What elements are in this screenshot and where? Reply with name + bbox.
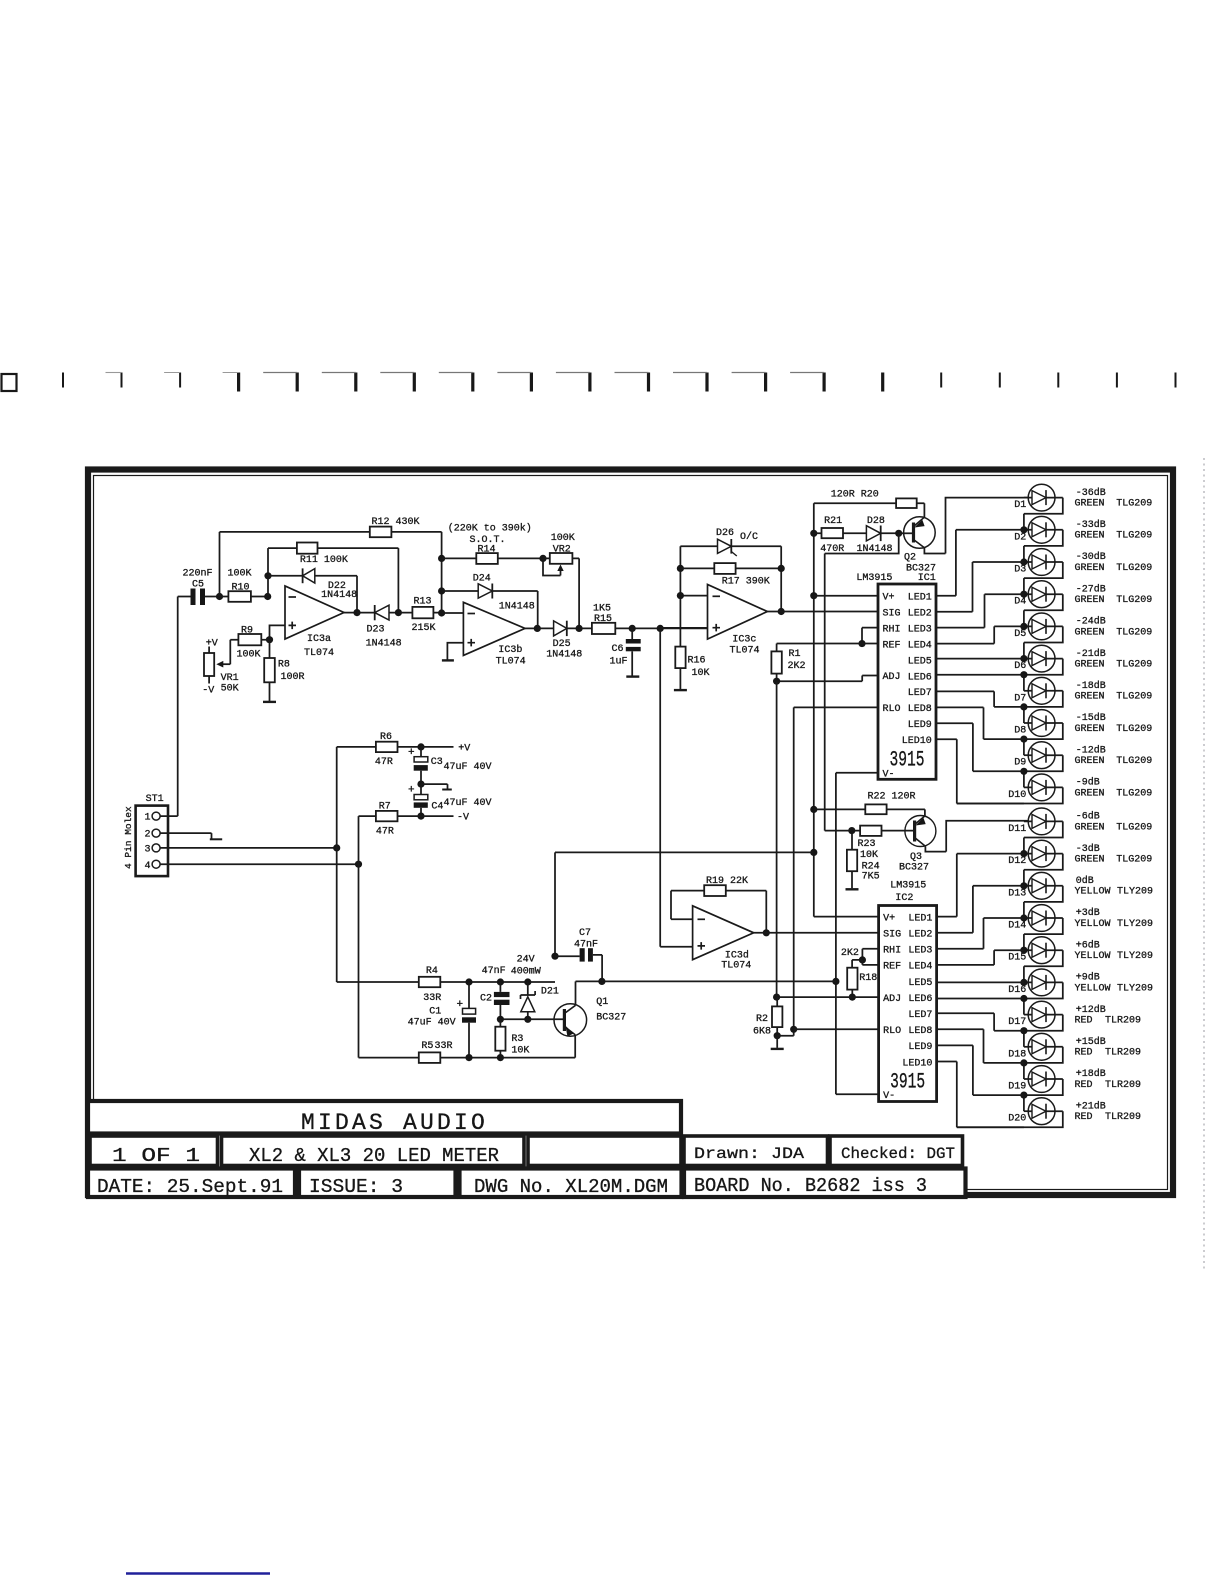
svg-text:215K: 215K: [412, 623, 436, 634]
resistor R8: [269, 640, 271, 702]
svg-text:1: 1: [144, 813, 150, 824]
svg-text:GREEN: GREEN: [1075, 499, 1105, 510]
node R17 right junction: [778, 565, 785, 572]
svg-text:-30dB: -30dB: [1076, 551, 1106, 563]
svg-text:50K: 50K: [221, 684, 239, 695]
svg-text:D18: D18: [1008, 1049, 1026, 1060]
potentiometer VR1: [204, 653, 214, 676]
svg-text:3: 3: [144, 845, 150, 856]
ground: [626, 675, 639, 677]
wire IC2 LED4 to chain: [937, 950, 1024, 965]
svg-text:220nF: 220nF: [183, 569, 213, 580]
wire feedback riser: [219, 532, 221, 597]
svg-text:-21dB: -21dB: [1076, 648, 1106, 660]
svg-text:10K: 10K: [692, 668, 710, 679]
svg-text:C1: C1: [429, 1007, 441, 1018]
svg-text:TLY209: TLY209: [1117, 983, 1153, 994]
svg-text:+9dB: +9dB: [1076, 972, 1100, 984]
svg-text:120R R20: 120R R20: [831, 490, 879, 501]
wire IC1 RLO down to IC2 RLO: [794, 707, 878, 1029]
svg-text:R22 120R: R22 120R: [868, 792, 916, 803]
node D24 left junction: [438, 587, 445, 594]
svg-text:GREEN: GREEN: [1075, 563, 1105, 574]
svg-text:2K2: 2K2: [788, 661, 806, 672]
capacitor C5: [191, 589, 196, 606]
wire IC1 LED10 to chain: [936, 739, 1024, 803]
svg-text:Q3: Q3: [910, 852, 922, 863]
svg-text:GREEN: GREEN: [1075, 660, 1105, 671]
wire IC1 LED2 to chain: [936, 562, 1024, 612]
svg-text:TLR209: TLR209: [1105, 1048, 1141, 1059]
LED D8 -15dB GREEN TLG209: [1014, 710, 1152, 756]
svg-text:VR2: VR2: [553, 544, 571, 555]
svg-text:LED4: LED4: [908, 962, 932, 973]
svg-text:XL2 & XL3 20 LED METER: XL2 & XL3 20 LED METER: [249, 1145, 499, 1167]
svg-text:LED3: LED3: [908, 946, 932, 957]
svg-text:6K8: 6K8: [753, 1027, 771, 1038]
node R23 junction: [848, 827, 855, 834]
resistor R2: [776, 997, 778, 1036]
LED chain anode junctions: [1020, 526, 1027, 533]
pin 3 ST1: [152, 844, 160, 852]
svg-text:LED4: LED4: [908, 640, 932, 651]
wire IC2 LED7 to chain: [937, 1013, 1024, 1030]
node R13 right junction: [438, 609, 445, 616]
svg-text:TL074: TL074: [304, 648, 334, 659]
svg-text:Drawn: JDA: Drawn: JDA: [694, 1145, 804, 1163]
LED D6 -21dB GREEN TLG209: [1014, 645, 1152, 691]
svg-text:LED7: LED7: [908, 688, 932, 699]
node ADJ junction: [773, 678, 780, 685]
svg-text:100K: 100K: [228, 568, 252, 579]
svg-text:LED6: LED6: [908, 672, 932, 683]
node V- rail junction: [832, 978, 839, 985]
node C7 left junction: [551, 953, 558, 960]
svg-text:O/C: O/C: [740, 531, 758, 543]
svg-text:TLG209: TLG209: [1116, 531, 1152, 542]
node IC1 V+ junction: [810, 592, 817, 599]
svg-text:GREEN: GREEN: [1075, 724, 1105, 735]
wire input line and ST1 pin1 riser: [178, 597, 191, 817]
svg-text:LED10: LED10: [902, 736, 932, 747]
node IC3d output: [763, 929, 770, 936]
resistor R16: [679, 546, 681, 689]
wire R11 branch riser: [267, 548, 269, 596]
decorative perforation row: [2, 373, 1176, 392]
svg-text:-24dB: -24dB: [1076, 616, 1106, 628]
svg-text:TLG209: TLG209: [1116, 499, 1152, 510]
svg-text:R5: R5: [421, 1041, 433, 1052]
svg-text:REF: REF: [883, 640, 901, 651]
svg-text:TLG209: TLG209: [1116, 788, 1152, 799]
svg-text:4 Pin Molex: 4 Pin Molex: [123, 806, 134, 869]
svg-text:TL074: TL074: [496, 656, 526, 667]
svg-text:47uF 40V: 47uF 40V: [408, 1018, 456, 1029]
svg-text:LED7: LED7: [908, 1010, 932, 1021]
svg-text:47uF 40V: 47uF 40V: [444, 798, 492, 809]
LED D5 -24dB GREEN TLG209: [1014, 613, 1152, 659]
svg-text:TLG209: TLG209: [1116, 595, 1152, 606]
svg-text:D8: D8: [1014, 726, 1026, 737]
svg-text:33R: 33R: [423, 993, 441, 1004]
svg-text:-9dB: -9dB: [1076, 777, 1100, 789]
wire IC1 LED4 to chain: [936, 626, 1024, 643]
svg-text:IC2: IC2: [895, 893, 913, 904]
diode D28: [881, 532, 899, 534]
svg-text:DWG No. XL20M.DGM: DWG No. XL20M.DGM: [474, 1176, 668, 1198]
svg-text:R11 100K: R11 100K: [300, 555, 348, 566]
LED D15 +6dB YELLOW TLY209: [1008, 937, 1153, 983]
svg-text:Checked: DGT: Checked: DGT: [841, 1145, 955, 1163]
resistor R23: [825, 830, 915, 832]
capacitor C6: [631, 628, 633, 639]
svg-text:TLG209: TLG209: [1116, 756, 1152, 767]
wire +V riser/dropper: [336, 747, 338, 982]
svg-text:LED5: LED5: [908, 978, 932, 989]
svg-text:SIG: SIG: [883, 608, 901, 619]
wire IC3b output: [525, 627, 537, 629]
svg-text:D19: D19: [1008, 1082, 1026, 1093]
svg-text:D4: D4: [1014, 597, 1026, 608]
resistor R12: [370, 527, 392, 538]
svg-text:-18dB: -18dB: [1076, 680, 1106, 692]
svg-text:BC327: BC327: [899, 863, 929, 874]
svg-text:-V: -V: [457, 813, 469, 824]
node R9 R8 junction: [266, 636, 273, 643]
wire IC3c inverting input: [680, 595, 707, 597]
svg-text:V+: V+: [883, 913, 895, 924]
svg-text:RED: RED: [1075, 1080, 1093, 1091]
svg-text:D5: D5: [1014, 629, 1026, 640]
resistor R4: [419, 977, 441, 987]
svg-text:-V: -V: [202, 686, 214, 697]
svg-text:100K: 100K: [237, 650, 261, 661]
LED D1 -36dB GREEN TLG209: [1014, 484, 1152, 530]
svg-text:100K: 100K: [551, 533, 575, 544]
ground: [263, 701, 276, 703]
node Q1 base junction: [524, 1016, 531, 1023]
svg-text:GREEN: GREEN: [1075, 692, 1105, 703]
wire IC3d inverting bracket: [671, 891, 693, 920]
svg-text:RHI: RHI: [883, 946, 901, 957]
node R3 junction: [497, 1016, 504, 1023]
svg-text:IC3a: IC3a: [307, 634, 331, 645]
svg-text:MIDAS AUDIO: MIDAS AUDIO: [301, 1110, 488, 1136]
svg-text:IC3c: IC3c: [732, 635, 756, 646]
wire IC2 LED1 to chain: [937, 854, 1024, 917]
wire IC3d non-inverting feed: [660, 628, 692, 946]
svg-text:R1: R1: [789, 649, 801, 660]
svg-text:-33dB: -33dB: [1076, 519, 1106, 531]
LED D9 -12dB GREEN TLG209: [1014, 742, 1152, 788]
pin 2 ST1: [152, 829, 160, 837]
svg-text:TLG209: TLG209: [1116, 855, 1152, 866]
LED D2 -33dB GREEN TLG209: [1014, 516, 1152, 562]
svg-text:YELLOW: YELLOW: [1075, 951, 1111, 962]
zener D21: [527, 982, 529, 995]
wire +V stub: [421, 746, 454, 748]
svg-text:10K: 10K: [511, 1046, 529, 1057]
resistor R17: [680, 567, 781, 569]
svg-text:D26: D26: [716, 528, 734, 539]
wire IC2 ADJ line: [777, 996, 879, 998]
svg-text:LED9: LED9: [908, 1042, 932, 1053]
svg-text:GREEN: GREEN: [1075, 595, 1105, 606]
svg-text:R15: R15: [594, 614, 612, 625]
svg-text:GREEN: GREEN: [1075, 756, 1105, 767]
diode D26 O/C: [680, 546, 781, 611]
LED D12 -3dB GREEN TLG209: [1008, 840, 1152, 886]
svg-text:TL074: TL074: [730, 646, 760, 657]
svg-text:TLY209: TLY209: [1117, 919, 1153, 930]
resistor R14: [442, 557, 543, 559]
svg-text:R9: R9: [241, 626, 253, 637]
svg-text:D23: D23: [367, 625, 385, 636]
IC U2 LM3915 IC2 box: [879, 906, 937, 1102]
node D24 return junction: [534, 625, 541, 632]
svg-text:RED: RED: [1075, 1112, 1093, 1123]
node pin4 junction: [355, 861, 362, 868]
svg-text:33R: 33R: [435, 1041, 453, 1052]
resistor R21: [814, 532, 867, 534]
LED D20 +21dB RED TLR209: [957, 1098, 1141, 1128]
ground: [776, 1036, 778, 1048]
svg-text:TLG209: TLG209: [1116, 822, 1152, 833]
transistor Q1 BC327: [554, 1004, 587, 1037]
svg-text:TLY209: TLY209: [1117, 951, 1153, 962]
wire IC1 LED7 to chain: [936, 691, 1024, 707]
svg-text:C2: C2: [480, 994, 492, 1005]
svg-text:LED9: LED9: [908, 720, 932, 731]
svg-text:2: 2: [144, 830, 150, 841]
svg-text:47nF: 47nF: [482, 966, 506, 977]
svg-text:Q1: Q1: [596, 997, 608, 1008]
node inverting input junction: [264, 593, 271, 600]
svg-text:YELLOW: YELLOW: [1075, 887, 1111, 898]
svg-text:R16: R16: [688, 656, 706, 667]
svg-text:-15dB: -15dB: [1076, 712, 1106, 724]
svg-text:-12dB: -12dB: [1076, 744, 1106, 756]
svg-text:RLO: RLO: [883, 704, 901, 715]
resistor R24: [851, 831, 853, 889]
wire IC2 LED8 to chain: [937, 1029, 1024, 1063]
wire V- rail: [576, 980, 836, 982]
node C3-C4 junction: [417, 781, 424, 788]
node R13 left junction: [395, 609, 402, 616]
svg-text:TLG209: TLG209: [1116, 724, 1152, 735]
svg-text:D17: D17: [1008, 1017, 1026, 1028]
node C1 junction: [465, 978, 472, 985]
svg-text:R4: R4: [426, 966, 438, 977]
svg-text:D11: D11: [1008, 824, 1026, 835]
svg-text:7K5: 7K5: [862, 872, 880, 883]
op-amp IC3c: [708, 585, 768, 640]
node D21 junction: [524, 978, 531, 985]
node R18 bottom junction: [849, 994, 856, 1001]
svg-text:LED10: LED10: [902, 1058, 932, 1069]
node IC3a output: [353, 609, 360, 616]
node R22 junction: [810, 806, 817, 813]
svg-text:R10: R10: [232, 583, 250, 594]
svg-text:2K2: 2K2: [841, 948, 859, 959]
svg-text:LED3: LED3: [908, 624, 932, 635]
svg-text:C7: C7: [579, 928, 591, 939]
wire Q2 base bus down: [825, 533, 899, 830]
diode D25: [537, 627, 579, 629]
blue pen mark bottom left: [126, 1572, 270, 1575]
svg-text:+6dB: +6dB: [1076, 939, 1100, 951]
wire V+ rail vertical: [814, 503, 879, 916]
svg-text:R17 390K: R17 390K: [722, 577, 770, 588]
svg-text:ADJ: ADJ: [883, 994, 901, 1005]
svg-text:IC1: IC1: [918, 573, 936, 584]
resistor R5: [359, 1057, 419, 1059]
resistor R1: [776, 644, 778, 682]
svg-text:-27dB: -27dB: [1076, 583, 1106, 595]
svg-text:D2: D2: [1014, 532, 1026, 543]
wire Q1 base: [500, 1018, 564, 1020]
node R21 junction: [810, 530, 817, 537]
pin 1 ST1: [152, 812, 160, 820]
wire -V riser/dropper: [358, 816, 360, 1058]
svg-text:+15dB: +15dB: [1076, 1036, 1106, 1048]
node C2 junction: [497, 978, 504, 985]
svg-text:TLG209: TLG209: [1116, 563, 1152, 574]
svg-text:GREEN: GREEN: [1075, 855, 1105, 866]
svg-text:400mW: 400mW: [511, 967, 541, 978]
svg-text:D25: D25: [553, 639, 571, 650]
node pin3 junction: [333, 844, 340, 851]
wire IC2 LED6 to chain: [937, 998, 1024, 1000]
node REF junction: [858, 640, 865, 647]
wire IC1 V+: [814, 595, 878, 597]
svg-text:C6: C6: [612, 644, 624, 655]
wire IC2 RLO: [794, 1028, 879, 1030]
op-amp IC3d: [693, 906, 754, 960]
node S.O.T. junction: [438, 555, 445, 562]
wire Q3 collector to D11: [925, 821, 1028, 852]
wire IC2 LED9 to chain: [937, 1045, 1024, 1095]
svg-text:10K: 10K: [860, 850, 878, 861]
capacitor C1: [468, 982, 470, 1008]
LED D3 -30dB GREEN TLG209: [1014, 549, 1152, 595]
resistor R10: [220, 596, 268, 598]
capacitor C3: [420, 747, 422, 757]
svg-text:C3: C3: [431, 757, 443, 768]
svg-text:TLR209: TLR209: [1105, 1016, 1141, 1027]
wire IC2 LED3 to chain: [937, 918, 1024, 949]
svg-text:24V: 24V: [517, 955, 535, 966]
svg-text:1N4148: 1N4148: [546, 650, 582, 661]
svg-text:R7: R7: [379, 802, 391, 813]
svg-text:TLR209: TLR209: [1105, 1112, 1141, 1123]
svg-text:+12dB: +12dB: [1076, 1004, 1106, 1016]
svg-text:R18: R18: [859, 973, 877, 984]
svg-text:R21: R21: [824, 516, 842, 527]
diode D24: [442, 591, 538, 628]
svg-text:1 OF 1: 1 OF 1: [112, 1145, 200, 1167]
ground: [846, 888, 859, 890]
svg-text:TLG209: TLG209: [1116, 627, 1152, 638]
node C1 bottom junction: [465, 1054, 472, 1061]
svg-text:BOARD No. B2682 iss 3: BOARD No. B2682 iss 3: [694, 1175, 927, 1197]
svg-text:GREEN: GREEN: [1075, 788, 1105, 799]
wire IC3a non-inverting input: [270, 625, 286, 639]
wire IC1 ADJ: [777, 675, 878, 681]
svg-text:TLG209: TLG209: [1116, 692, 1152, 703]
node VR2 return junction: [576, 625, 583, 632]
node R2 bottom junction: [774, 1032, 781, 1039]
wire IC2 V-: [836, 1093, 879, 1095]
svg-text:D24: D24: [473, 574, 491, 585]
op-amp IC3a: [285, 586, 344, 639]
svg-text:D13: D13: [1008, 888, 1026, 899]
svg-text:D12: D12: [1008, 856, 1026, 867]
svg-text:LM3915: LM3915: [890, 881, 926, 892]
svg-text:TLR209: TLR209: [1105, 1080, 1141, 1091]
svg-text:+V: +V: [206, 638, 218, 649]
svg-text:+21dB: +21dB: [1076, 1100, 1106, 1112]
svg-text:1N4148: 1N4148: [499, 602, 535, 613]
node input junction: [216, 593, 223, 600]
IC U1 LM3915 IC1 box: [878, 584, 936, 779]
svg-text:47R: 47R: [376, 827, 394, 838]
svg-text:3915: 3915: [890, 748, 925, 773]
svg-text:IC3b: IC3b: [498, 644, 522, 656]
resistor R9: [230, 640, 269, 665]
svg-text:0dB: 0dB: [1076, 875, 1094, 887]
svg-text:+V: +V: [458, 744, 470, 755]
resistor R11: [268, 548, 398, 613]
wire ST1 pin3 (+V feed): [160, 847, 337, 849]
svg-text:RHI: RHI: [883, 624, 901, 635]
svg-text:47uF 40V: 47uF 40V: [444, 762, 492, 773]
wire IC1 V-: [836, 773, 878, 1094]
svg-text:4: 4: [144, 861, 150, 872]
svg-text:-3dB: -3dB: [1076, 843, 1100, 855]
LED D17 +12dB RED TLR209: [1008, 1001, 1141, 1047]
wire IC1 LED8 to chain: [936, 707, 1024, 739]
wire IC1 LED3 to chain: [936, 594, 1024, 627]
svg-text:D3: D3: [1014, 565, 1026, 576]
svg-text:LED1: LED1: [908, 913, 932, 924]
svg-text:ADJ: ADJ: [883, 672, 901, 683]
wire IC1 LED1 to chain: [936, 530, 1024, 596]
node C6 junction: [629, 625, 636, 632]
svg-text:47R: 47R: [375, 757, 393, 768]
svg-text:GREEN: GREEN: [1075, 822, 1105, 833]
svg-text:47nF: 47nF: [574, 940, 598, 951]
svg-text:D20: D20: [1008, 1114, 1026, 1125]
svg-text:R23: R23: [858, 839, 876, 850]
node R17 left junction: [677, 565, 684, 572]
wire ADJ bus down to IC2: [776, 681, 778, 997]
svg-text:GREEN: GREEN: [1075, 627, 1105, 638]
svg-text:LED8: LED8: [908, 1026, 932, 1037]
svg-text:D16: D16: [1008, 985, 1026, 996]
node D22 junction: [264, 572, 271, 579]
wire IC1 LED9 to chain: [936, 723, 1024, 771]
wire IC2 LED2 to chain: [937, 886, 1024, 933]
wire IC1 LED5 to chain: [936, 658, 1024, 660]
node IC3c output: [778, 608, 785, 615]
drawing frame inner line: [94, 476, 1168, 1190]
svg-text:YELLOW: YELLOW: [1075, 919, 1111, 930]
diode D23: [357, 612, 398, 614]
LED D10 -9dB GREEN TLG209: [957, 774, 1152, 804]
svg-text:D28: D28: [867, 516, 885, 527]
svg-text:R3: R3: [511, 1034, 523, 1045]
